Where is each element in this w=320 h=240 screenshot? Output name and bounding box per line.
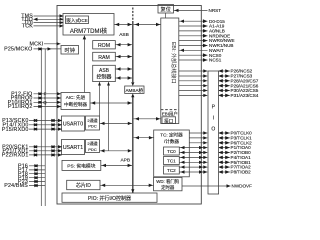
svg-text:ASB: ASB — [99, 68, 110, 74]
pin NWDOVF — [182, 184, 252, 189]
svg-text:ASB: ASB — [119, 32, 129, 38]
svg-text:TC: 定时器: TC: 定时器 — [160, 131, 183, 138]
svg-text:/计数器: /计数器 — [164, 138, 179, 145]
pin P31/A23/CS4 — [179, 93, 259, 98]
svg-text:控制器: 控制器 — [96, 74, 111, 81]
pin P9/IRQ0 — [11, 96, 61, 102]
APB bus vertical — [132, 97, 134, 193]
wire reset to EBI — [165, 13, 167, 18]
pin NCS1 — [179, 58, 222, 63]
pin P24/BMS — [4, 183, 45, 189]
APB bus arrow into PIO controller — [131, 189, 134, 193]
pin NRD/NOE — [179, 33, 230, 38]
wire ARM to ASB bus — [114, 23, 132, 26]
pin P22/RXD1 — [2, 153, 62, 159]
block USART1 — [62, 140, 85, 155]
wire ASB bus to EBI — [134, 23, 161, 26]
pin P29/A21/CS6 — [179, 83, 259, 88]
block ARM7TDMI core — [63, 14, 114, 36]
block ASB controller — [93, 65, 116, 81]
ASB bus vertical — [132, 21, 134, 82]
ASB bus arrow into AMBA bridge — [131, 82, 134, 86]
block AMBA bridge — [125, 86, 144, 94]
svg-text:P22/RXD1: P22/RXD1 — [2, 153, 29, 159]
svg-text:RAM: RAM — [98, 55, 110, 61]
wire PDC1 DMA to ASB controller — [107, 82, 110, 151]
pin P18 — [18, 171, 45, 177]
wire PDC0 DMA to ASB controller — [98, 82, 101, 116]
pin P0/TCLK0 — [189, 131, 252, 136]
bus label APB — [120, 158, 130, 164]
svg-text:2通道: 2通道 — [87, 140, 97, 146]
net label F on rail — [44, 92, 47, 97]
block EBI external bus interface — [161, 18, 179, 124]
block reset 复位 — [158, 5, 174, 14]
svg-text:AMBA桥: AMBA桥 — [125, 87, 143, 94]
svg-text:I: I — [213, 116, 214, 122]
svg-text:AIC: 先进: AIC: 先进 — [66, 94, 86, 101]
pin P28/A20/CS7 — [179, 78, 259, 83]
pin TCK — [22, 24, 64, 30]
EBI user interface divider (dashed) — [161, 109, 179, 111]
pin P16 — [18, 164, 45, 170]
pin P14/TXD0 — [2, 123, 62, 129]
svg-text:NRST: NRST — [209, 8, 222, 13]
block PIO parallel IO controller — [62, 193, 157, 202]
svg-text:O: O — [211, 127, 215, 133]
block PDC of USART0 — [86, 116, 100, 130]
pin P4/TIOA1 — [179, 155, 251, 160]
pin NWR0/NWE — [179, 38, 235, 43]
svg-text:USART0: USART0 — [63, 122, 83, 128]
pin TDO — [21, 17, 63, 23]
pin P3/TCLK1 — [189, 136, 252, 141]
wire AIC to ARM core interrupt — [83, 35, 86, 92]
svg-text:ARM7TDMI核: ARM7TDMI核 — [70, 27, 107, 35]
wire ASB controller to ASB bus upper — [115, 67, 132, 70]
pin P20/SCK1 — [2, 145, 62, 151]
pin TDI — [24, 20, 64, 26]
svg-text:USART1: USART1 — [63, 145, 83, 151]
svg-text:时钟: 时钟 — [65, 46, 75, 54]
pin P11/IRQ2 — [8, 104, 61, 110]
svg-text:TC2: TC2 — [167, 168, 176, 173]
wire PS to APB bus — [101, 164, 132, 167]
svg-text:TCK: TCK — [22, 24, 33, 30]
pin P7/TIOA2 — [179, 165, 251, 170]
svg-text:定时器: 定时器 — [161, 184, 175, 191]
svg-text:TC0: TC0 — [167, 149, 176, 154]
pin P25/MCKO — [4, 47, 61, 53]
svg-text:P15/RXD0: P15/RXD0 — [2, 127, 29, 133]
svg-text:接口: 接口 — [164, 117, 173, 124]
svg-text:PIO: 并行I/O控制器: PIO: 并行I/O控制器 — [88, 195, 131, 202]
svg-text:WD: 看门狗: WD: 看门狗 — [156, 178, 180, 185]
svg-text:P11/IRQ2: P11/IRQ2 — [8, 104, 32, 110]
chip boundary box — [57, 6, 201, 205]
svg-text:P24/BMS: P24/BMS — [4, 183, 28, 189]
pin P17 — [18, 168, 45, 174]
wire USART1 PDC to APB bus — [100, 149, 133, 152]
wire ASB controller to ASB bus lower — [115, 76, 132, 79]
block ROM — [93, 41, 116, 50]
pin P23 — [18, 179, 45, 185]
svg-text:P8/TIOB2: P8/TIOB2 — [231, 170, 252, 175]
pin P2/TIOB0 — [179, 150, 251, 155]
svg-text:APB: APB — [120, 158, 130, 164]
pin P8/TIOB2 — [179, 170, 251, 175]
net label Q on rail — [43, 100, 47, 105]
pin A1-A19 — [179, 24, 225, 29]
pin P13/SCK0 — [2, 118, 62, 124]
block TC1 — [164, 157, 180, 165]
block PDC of USART1 — [86, 140, 100, 153]
block embedded ICE — [66, 16, 89, 24]
pin P5/TIOB1 — [179, 160, 251, 165]
svg-text:TC1: TC1 — [167, 159, 176, 164]
wire chip ID to APB bus to WD — [100, 184, 154, 187]
pin MCKI — [29, 42, 60, 48]
svg-text:芯片ID: 芯片ID — [76, 182, 91, 189]
svg-text:P31/A23/CS4: P31/A23/CS4 — [231, 93, 259, 98]
pin P26/NCS2 — [179, 69, 253, 74]
block TC0 — [164, 147, 180, 155]
pin P12-FIQ — [11, 92, 61, 98]
pin A0/NLB — [179, 29, 225, 34]
svg-text:PDC: PDC — [88, 124, 97, 129]
svg-text:ROM: ROM — [98, 43, 110, 49]
svg-text:NWDOVF: NWDOVF — [232, 184, 253, 189]
PIO pin rail left A — [40, 49, 42, 206]
pin NWAIT — [179, 48, 224, 53]
block PIO right pin multiplexer — [208, 71, 219, 194]
svg-text:EBI: 外部总线接口: EBI: 外部总线接口 — [170, 42, 177, 84]
block chip ID — [67, 180, 100, 189]
pin P1/TIOA0 — [179, 145, 251, 150]
pin NCS0 — [179, 53, 222, 58]
EBI user interface inner box 接口 — [162, 117, 176, 125]
pin P27/NCS3 — [179, 74, 253, 79]
pin P30/A22/CS5 — [179, 88, 259, 93]
wire ROM to ASB bus — [115, 43, 132, 46]
svg-text:嵌入式ICE: 嵌入式ICE — [66, 17, 87, 24]
block PS power saving — [62, 160, 101, 170]
APB bus arrow out of AMBA bridge — [131, 93, 134, 97]
EBI user interface label — [162, 111, 178, 118]
block RAM — [93, 52, 116, 61]
svg-text:NCS1: NCS1 — [209, 58, 222, 63]
pin P19 — [18, 175, 45, 181]
svg-text:PS: 省电模块: PS: 省电模块 — [67, 162, 95, 169]
pin TMS — [21, 14, 63, 20]
pin NWR1/NUB — [179, 43, 234, 48]
pin P15/RXD0 — [2, 127, 62, 133]
block TC timer counter — [154, 130, 190, 177]
svg-text:PDC: PDC — [88, 147, 97, 152]
svg-text:P25/MCKO: P25/MCKO — [4, 47, 32, 53]
pin P10/IRQ1 — [8, 100, 61, 106]
ASB bus vertical (dashed top) — [132, 8, 134, 22]
wire AIC to APB bus — [90, 101, 132, 104]
block USART0 — [62, 116, 85, 131]
pin NRST — [174, 8, 222, 13]
block WD watchdog — [154, 177, 183, 191]
bus label ASB — [119, 32, 129, 38]
wire APB bus to TC — [134, 136, 154, 139]
wire USART0 PDC to APB bus — [100, 122, 133, 125]
block AIC interrupt controller — [61, 93, 90, 110]
block clock 时钟 — [61, 46, 79, 55]
wire RAM to ASB bus — [115, 55, 132, 58]
pin P21/TXD1 — [2, 149, 62, 155]
net label I on rail — [44, 96, 45, 101]
wire APB bus to EBI user interface — [134, 117, 161, 120]
svg-text:中断控制器: 中断控制器 — [64, 101, 87, 108]
block TC2 — [164, 166, 180, 174]
svg-text:2通道: 2通道 — [87, 117, 97, 123]
svg-text:复位: 复位 — [161, 5, 171, 13]
pin P6/TCLK2 — [189, 140, 252, 145]
pin D0-D15 — [179, 19, 225, 24]
PIO pin rail left B — [44, 49, 46, 206]
